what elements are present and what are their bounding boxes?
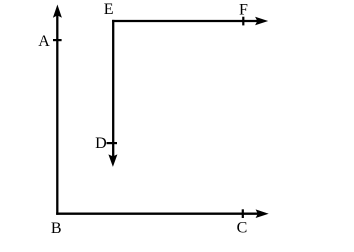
svg-text:F: F [239,2,248,19]
svg-text:C: C [237,220,248,237]
svg-text:B: B [51,220,62,237]
svg-text:A: A [38,33,50,50]
svg-text:E: E [104,1,114,18]
svg-text:D: D [95,135,107,152]
